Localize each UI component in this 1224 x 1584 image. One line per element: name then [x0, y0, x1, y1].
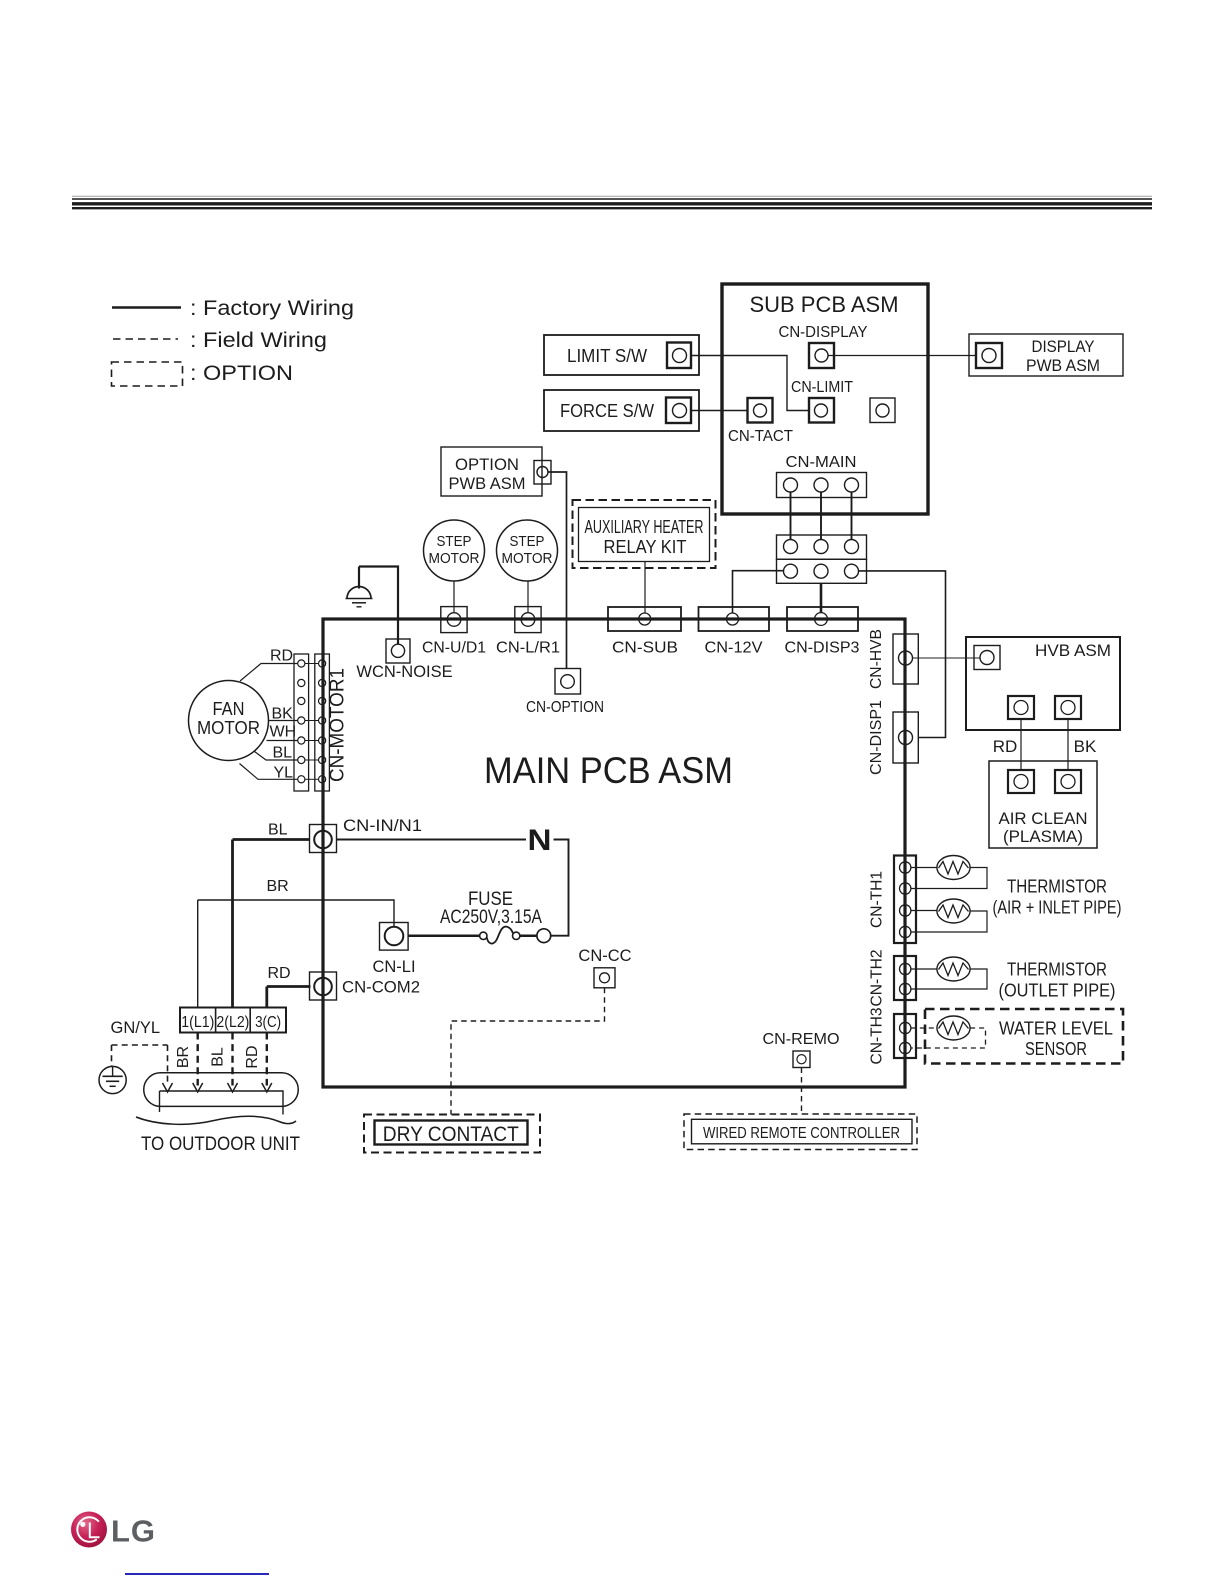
connector CN-IN/N1: [310, 817, 423, 853]
dry contact box: [364, 1115, 540, 1153]
wire hvb to air clean RD: [1020, 719, 1022, 771]
wire water level sensor dashed: [911, 1028, 986, 1048]
svg-text:: Factory Wiring: : Factory Wiring: [190, 296, 354, 320]
wire RD to terminal: [267, 985, 311, 988]
svg-text:DISPLAY: DISPLAY: [1032, 338, 1095, 356]
svg-text:MOTOR: MOTOR: [197, 718, 260, 738]
svg-text:CN-IN/N1: CN-IN/N1: [343, 817, 422, 835]
svg-text:HVB ASM: HVB ASM: [1035, 641, 1111, 660]
svg-text:AUXILIARY HEATER: AUXILIARY HEATER: [585, 516, 704, 537]
svg-text:DRY CONTACT: DRY CONTACT: [383, 1122, 519, 1146]
connector CN-TH3: [869, 1007, 917, 1064]
thermistor inlet pipe: [911, 899, 987, 932]
ground earth circle: [99, 1066, 126, 1093]
wire cn-cc to dry contact dashed: [451, 988, 605, 1115]
wire block to cn-disp3: [820, 583, 823, 612]
connector CN-TH2: [869, 949, 917, 1006]
wire BL to terminal: [233, 838, 311, 841]
legend factory wiring: [112, 296, 354, 320]
limit switch box: [544, 335, 699, 375]
footer blue line: [125, 1573, 269, 1575]
thermistor outlet pipe: [911, 957, 987, 989]
svg-text:RD: RD: [244, 1045, 261, 1068]
svg-text:BL: BL: [210, 1047, 227, 1067]
svg-text:CN-DISP1: CN-DISP1: [868, 700, 885, 775]
connector CN-DISPLAY: [779, 324, 868, 368]
svg-text:CN-HVB: CN-HVB: [868, 629, 885, 689]
svg-text:CN-LIMIT: CN-LIMIT: [791, 379, 853, 396]
svg-text:(OUTLET PIPE): (OUTLET PIPE): [999, 981, 1116, 1001]
svg-text:WH: WH: [270, 724, 297, 741]
wire fan YL: [240, 764, 298, 780]
wire cn-remo dashed: [801, 1068, 803, 1115]
svg-text:BL: BL: [268, 822, 288, 839]
wire BL dashed: [231, 1033, 233, 1086]
connector CN-U/D1: [422, 607, 486, 657]
svg-text:CN-DISPLAY: CN-DISPLAY: [779, 324, 868, 341]
svg-text:RD: RD: [270, 648, 293, 665]
svg-text:MOTOR: MOTOR: [502, 550, 553, 567]
LG logo badge: [71, 1512, 156, 1549]
main pcb asm box: [323, 619, 905, 1087]
svg-text:WIRED REMOTE CONTROLLER: WIRED REMOTE CONTROLLER: [703, 1125, 900, 1142]
svg-text:MAIN PCB ASM: MAIN PCB ASM: [484, 750, 733, 791]
force switch box: [544, 390, 699, 431]
svg-text:CN-MOTOR1: CN-MOTOR1: [327, 668, 349, 782]
connector CN-12V: [699, 607, 770, 657]
svg-text:SENSOR: SENSOR: [1025, 1039, 1087, 1059]
connector CN-TACT: [728, 398, 793, 445]
legend option: [112, 361, 294, 386]
svg-text:: OPTION: : OPTION: [190, 361, 293, 385]
step motor 2: [497, 520, 558, 612]
option pwb asm box: [441, 447, 551, 496]
fan motor: [189, 681, 269, 761]
svg-text:: Field Wiring: : Field Wiring: [190, 328, 327, 352]
svg-text:2(L2): 2(L2): [216, 1014, 249, 1031]
svg-text:LG: LG: [111, 1514, 156, 1549]
wire cn-main pins: [791, 492, 852, 540]
connector CN-CC: [578, 947, 631, 988]
svg-text:CN-SUB: CN-SUB: [612, 640, 678, 657]
connector spare: [870, 398, 895, 423]
svg-text:CN-12V: CN-12V: [705, 640, 763, 657]
connector CN-COM2: [310, 972, 421, 1000]
svg-text:CN-DISP3: CN-DISP3: [785, 640, 860, 657]
wire fan BK: [269, 720, 298, 722]
connector CN-DISP1: [868, 700, 918, 775]
air clean plasma box: [989, 761, 1097, 848]
wire ground to wcn-noise: [359, 567, 398, 644]
svg-text:AC250V,3.15A: AC250V,3.15A: [440, 907, 542, 928]
header rule: [72, 196, 1152, 208]
connector CN-SUB: [608, 607, 681, 657]
connector WCN-NOISE: [356, 639, 452, 681]
legend field wiring: [113, 328, 327, 352]
svg-text:CN-MAIN: CN-MAIN: [786, 454, 857, 471]
wire RD dashed: [266, 1033, 268, 1086]
svg-text:RD: RD: [268, 965, 291, 982]
connector CN-TH1: [869, 856, 917, 944]
wire block to cn-disp1: [859, 571, 946, 738]
svg-text:CN-TH2: CN-TH2: [869, 949, 886, 1006]
connector CN-HVB: [868, 629, 918, 689]
svg-text:BK: BK: [272, 706, 294, 723]
svg-text:YL: YL: [274, 765, 294, 782]
wire cn-display to display pwb: [828, 355, 976, 357]
wire fan BL: [255, 752, 298, 761]
connector CN-OPTION: [526, 669, 604, 717]
wire GN/YL dashed: [112, 1045, 168, 1086]
connector CN-L/R1: [496, 607, 560, 657]
connector CN-LIMIT: [791, 379, 853, 423]
svg-text:SUB PCB ASM: SUB PCB ASM: [750, 292, 899, 317]
connector CN-LI: [372, 923, 415, 977]
wire BR: [198, 900, 394, 926]
terminal block: [180, 1008, 286, 1033]
connector CN-MAIN: [777, 454, 867, 498]
outdoor unit stadium: [136, 1073, 300, 1155]
svg-text:CN-TACT: CN-TACT: [728, 428, 793, 445]
svg-text:AIR CLEAN: AIR CLEAN: [999, 809, 1088, 828]
wire N to fuse: [551, 840, 569, 936]
svg-text:PWB ASM: PWB ASM: [1026, 357, 1100, 375]
svg-text:MOTOR: MOTOR: [429, 550, 480, 567]
svg-text:BR: BR: [175, 1046, 192, 1068]
svg-text:CN-LI: CN-LI: [372, 958, 415, 976]
svg-text:RD: RD: [993, 737, 1018, 756]
wire limit-sw to cn-limit: [691, 356, 809, 411]
svg-text:STEP: STEP: [437, 533, 472, 550]
joint connector block 2 rows: [777, 535, 867, 583]
connector CN-REMO: [763, 1031, 840, 1068]
svg-text:BR: BR: [267, 878, 289, 895]
connector CN-DISP3: [785, 607, 860, 657]
svg-text:CN-OPTION: CN-OPTION: [526, 699, 604, 716]
svg-text:RELAY KIT: RELAY KIT: [604, 536, 687, 557]
svg-text:BL: BL: [273, 745, 293, 762]
svg-text:FORCE S/W: FORCE S/W: [560, 401, 654, 421]
svg-text:CN-COM2: CN-COM2: [342, 979, 420, 997]
water level sensor dashed box: [925, 1009, 1123, 1064]
wire fan RD: [240, 664, 298, 682]
wire cn-li to fuse: [408, 934, 480, 937]
svg-text:PWB ASM: PWB ASM: [449, 475, 526, 493]
svg-text:GN/YL: GN/YL: [111, 1019, 161, 1037]
svg-text:CN-CC: CN-CC: [578, 947, 631, 965]
svg-text:BK: BK: [1074, 737, 1097, 756]
svg-text:THERMISTOR: THERMISTOR: [1007, 960, 1107, 980]
connector CN-MOTOR1: [294, 654, 349, 791]
svg-text:CN-L/R1: CN-L/R1: [496, 640, 560, 657]
svg-text:N: N: [528, 824, 552, 857]
svg-text:(AIR + INLET PIPE): (AIR + INLET PIPE): [993, 898, 1122, 918]
svg-text:OPTION: OPTION: [455, 456, 519, 474]
svg-text:WCN-NOISE: WCN-NOISE: [356, 663, 452, 681]
svg-text:WATER LEVEL: WATER LEVEL: [999, 1019, 1113, 1039]
svg-text:CN-TH3: CN-TH3: [869, 1007, 886, 1064]
thermistor air: [911, 856, 987, 889]
svg-text:CN-REMO: CN-REMO: [763, 1031, 840, 1048]
svg-text:STEP: STEP: [510, 533, 545, 550]
svg-text:LIMIT S/W: LIMIT S/W: [567, 346, 647, 366]
display pwb asm box: [969, 334, 1123, 376]
wired remote controller box: [684, 1114, 917, 1150]
svg-text:(PLASMA): (PLASMA): [1003, 827, 1083, 846]
svg-text:CN-U/D1: CN-U/D1: [422, 640, 486, 657]
wire force-sw to cn-tact: [691, 410, 748, 412]
sub pcb asm box: [722, 284, 928, 514]
ground earth symbol top: [346, 567, 373, 607]
arrows into outdoor unit: [163, 1083, 272, 1092]
wire fan WH: [267, 740, 298, 742]
wire option pwb to cn-option: [548, 472, 567, 669]
step motor 1: [424, 520, 485, 612]
svg-text:CN-TH1: CN-TH1: [869, 871, 886, 928]
wire cn-12v up to block: [733, 571, 784, 613]
wire hvb to air clean BK: [1067, 719, 1069, 771]
svg-text:THERMISTOR: THERMISTOR: [1007, 877, 1107, 897]
svg-text:TO OUTDOOR UNIT: TO OUTDOOR UNIT: [141, 1133, 300, 1155]
auxiliary heater relay kit: [573, 500, 716, 568]
wire cn-hvb to hvb asm: [913, 657, 981, 659]
fuse: [440, 889, 551, 944]
svg-text:3(C): 3(C): [255, 1014, 281, 1031]
wire BR dashed: [196, 1033, 198, 1086]
wire cn-in/n1 to N: [337, 839, 526, 841]
svg-text:FAN: FAN: [213, 699, 245, 719]
svg-text:1(L1): 1(L1): [181, 1014, 214, 1031]
wire aux heater to cn-sub: [644, 562, 646, 613]
hvb asm box: [966, 637, 1120, 730]
